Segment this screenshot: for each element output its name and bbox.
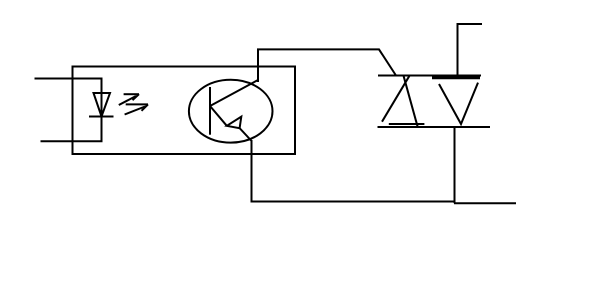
wire gate [458, 24, 483, 76]
wire emitter down [251, 140, 253, 203]
wire top-left input [35, 78, 103, 80]
light arrow 1 [119, 94, 139, 105]
wire bottom-left input [41, 140, 103, 142]
triac Q2 [378, 76, 491, 128]
wire bottom right segment [454, 202, 516, 204]
optocoupler U1 package [73, 67, 296, 155]
phototransistor Q1 [189, 80, 273, 143]
LED D1 [89, 79, 114, 142]
wire collector to triac MT2 top [258, 49, 396, 82]
wire triac MT1 down [454, 127, 456, 203]
wire bottom left segment [251, 201, 456, 203]
light arrow 2 [125, 104, 148, 114]
